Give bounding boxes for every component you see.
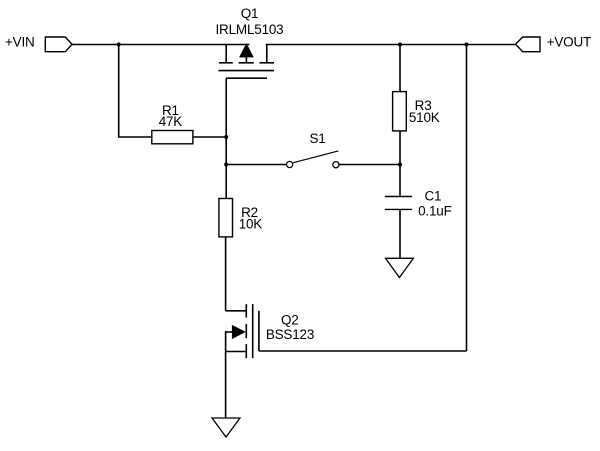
svg-text:47K: 47K xyxy=(159,114,183,129)
svg-text:IRLML5103: IRLML5103 xyxy=(216,22,284,37)
svg-text:+VIN: +VIN xyxy=(5,34,35,49)
svg-text:Q1: Q1 xyxy=(241,6,259,21)
svg-text:510K: 510K xyxy=(409,110,440,125)
svg-text:S1: S1 xyxy=(309,131,325,146)
svg-text:C1: C1 xyxy=(424,188,441,203)
svg-text:0.1uF: 0.1uF xyxy=(418,203,452,218)
svg-text:BSS123: BSS123 xyxy=(266,327,314,342)
svg-text:Q2: Q2 xyxy=(281,313,299,328)
svg-text:10K: 10K xyxy=(239,216,263,231)
svg-text:+VOUT: +VOUT xyxy=(547,34,591,49)
